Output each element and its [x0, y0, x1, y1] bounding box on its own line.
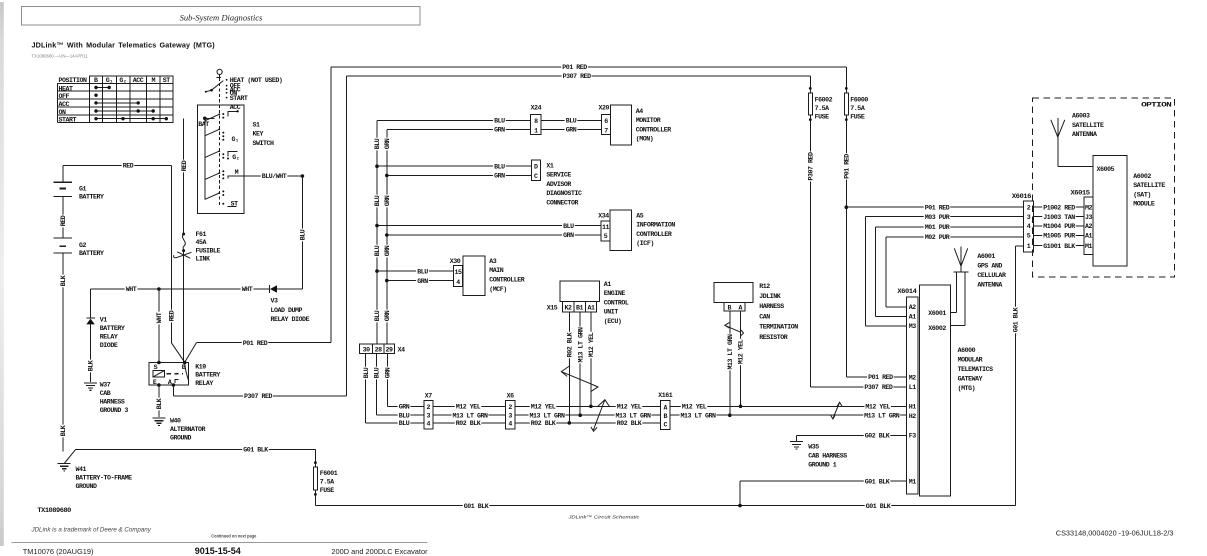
- fuse F6001 7.5A: [313, 449, 337, 505]
- wire G01 BLK bottom bus: [315, 502, 1015, 509]
- svg-text:G₂: G₂: [232, 154, 239, 161]
- svg-text:M12 YEL: M12 YEL: [617, 404, 642, 411]
- svg-text:GATEWAY: GATEWAY: [958, 376, 983, 383]
- svg-text:B: B: [94, 77, 98, 84]
- svg-text:P307 RED: P307 RED: [563, 73, 592, 80]
- connector X24: [531, 105, 542, 135]
- wire RED battery to relay B: [168, 165, 185, 362]
- svg-text:5: 5: [604, 233, 608, 240]
- svg-text:M03 PUR: M03 PUR: [925, 214, 950, 221]
- svg-text:M: M: [151, 77, 155, 84]
- wire G02 BLK to MTG F3: [797, 432, 907, 441]
- wire J1003 TAN: [1034, 213, 1085, 220]
- ground W40 alternator ground: [152, 417, 205, 441]
- svg-text:2: 2: [508, 404, 512, 411]
- svg-text:V1: V1: [100, 317, 108, 324]
- svg-text:M13 LT GRN: M13 LT GRN: [864, 412, 900, 419]
- wire P01 RED to MTG M2: [846, 374, 906, 381]
- svg-text:CS33148,0004020 -19-06JUL18-2/: CS33148,0004020 -19-06JUL18-2/3: [1056, 528, 1174, 537]
- svg-text:J1003 TAN: J1003 TAN: [1043, 214, 1075, 221]
- svg-text:A2: A2: [1085, 223, 1093, 230]
- svg-text:CAB: CAB: [100, 390, 111, 397]
- svg-text:GRN: GRN: [384, 195, 391, 206]
- footer text: [23, 546, 428, 556]
- svg-text:CONTROLLER: CONTROLLER: [636, 126, 672, 133]
- svg-text:CONTROL: CONTROL: [604, 299, 629, 306]
- diode V3 load dump relay diode: [270, 285, 310, 323]
- svg-text:ST: ST: [231, 200, 239, 207]
- svg-text:LINK: LINK: [196, 256, 211, 263]
- svg-text:RELAY: RELAY: [100, 334, 118, 341]
- svg-text:WHT: WHT: [126, 286, 137, 293]
- svg-text:BATTERY: BATTERY: [100, 325, 125, 332]
- svg-text:B1: B1: [576, 305, 584, 312]
- svg-text:OPTION: OPTION: [1141, 102, 1172, 109]
- svg-text:BLU: BLU: [417, 268, 428, 275]
- svg-text:W37: W37: [100, 381, 111, 388]
- svg-text:R12: R12: [759, 283, 770, 290]
- wire M12 YEL X7 to X6: [433, 403, 506, 410]
- svg-text:Continued on next page: Continued on next page: [211, 533, 257, 538]
- svg-text:2: 2: [1027, 204, 1031, 211]
- wire BLU X24 to X20: [541, 117, 601, 124]
- svg-text:M13 LT GRN: M13 LT GRN: [615, 412, 651, 419]
- svg-text:LOAD DUMP: LOAD DUMP: [271, 307, 303, 314]
- svg-text:X161: X161: [658, 392, 673, 399]
- wire BLU CAN vertical: [374, 121, 381, 345]
- svg-text:M: M: [235, 169, 239, 176]
- wire RED F61 to relay: [183, 251, 185, 363]
- svg-text:GPS AND: GPS AND: [977, 262, 1002, 269]
- connector X6015: [1071, 189, 1094, 254]
- svg-text:7: 7: [604, 127, 608, 134]
- svg-text:ENGINE: ENGINE: [604, 290, 626, 297]
- svg-text:P307 RED: P307 RED: [244, 393, 273, 400]
- svg-text:BLU: BLU: [566, 118, 577, 125]
- svg-text:(MCF): (MCF): [489, 286, 507, 293]
- svg-text:GRN: GRN: [494, 173, 505, 180]
- svg-text:M12 YEL: M12 YEL: [682, 404, 707, 411]
- svg-text:4: 4: [1027, 223, 1031, 230]
- wire GRN X4-29 to X7-2: [384, 353, 424, 410]
- svg-text:R02 BLK: R02 BLK: [567, 332, 574, 357]
- svg-text:B: B: [728, 305, 732, 312]
- svg-text:29: 29: [385, 346, 393, 353]
- continued note: [211, 533, 257, 538]
- figure id TX1080680: [32, 54, 89, 59]
- key switch rotary indicator: [205, 69, 224, 93]
- svg-text:A: A: [739, 305, 743, 312]
- svg-text:X7: X7: [425, 393, 433, 400]
- wire R02 BLK ECU K2: [566, 312, 573, 423]
- svg-text:7.5A: 7.5A: [850, 105, 865, 112]
- main controller A3: [463, 256, 525, 296]
- connector X1 service advisor: [531, 160, 582, 206]
- svg-text:M13 LT GRN: M13 LT GRN: [529, 412, 565, 419]
- svg-text:A1: A1: [587, 305, 595, 312]
- connector X6014: [897, 288, 918, 494]
- svg-text:CONTROLLER: CONTROLLER: [636, 231, 672, 238]
- svg-text:M13 LT GRN: M13 LT GRN: [577, 327, 584, 363]
- connector X30: [450, 258, 463, 287]
- svg-text:3: 3: [508, 413, 512, 420]
- wire GRN X24 to X20: [541, 126, 601, 133]
- wire R02 BLK X6 to X161: [515, 420, 661, 427]
- svg-text:X6015: X6015: [1071, 189, 1091, 196]
- svg-text:A1: A1: [1085, 233, 1093, 240]
- svg-text:HEAT: HEAT: [59, 85, 74, 92]
- trademark note: [31, 527, 152, 534]
- svg-text:G01 BLK: G01 BLK: [464, 503, 489, 510]
- svg-text:V3: V3: [271, 298, 279, 305]
- svg-text:BLU: BLU: [563, 223, 574, 230]
- svg-text:WHT: WHT: [242, 286, 253, 293]
- svg-text:ON: ON: [59, 109, 67, 116]
- ground W37 cab harness ground 3: [84, 381, 128, 414]
- wire M13 LT GRN X6 to X161: [515, 412, 661, 419]
- X6016 pin labels: [1027, 204, 1031, 250]
- svg-text:M12 YEL: M12 YEL: [865, 404, 890, 411]
- svg-text:7.5A: 7.5A: [815, 105, 830, 112]
- connector X34: [598, 212, 610, 240]
- svg-text:R02 BLK: R02 BLK: [531, 420, 556, 427]
- svg-text:GRN: GRN: [384, 138, 391, 149]
- svg-text:G1001 BLK: G1001 BLK: [1043, 243, 1075, 250]
- svg-text:(MON): (MON): [636, 136, 654, 143]
- wire M03 PUR MTG M3 to X6016-3: [865, 213, 1023, 326]
- svg-text:B: B: [664, 413, 668, 420]
- svg-text:X6002: X6002: [928, 325, 946, 332]
- wire M12 YEL R12 A: [737, 311, 744, 408]
- svg-text:K19: K19: [195, 363, 206, 370]
- svg-text:GRN: GRN: [385, 367, 392, 378]
- svg-text:MODULE: MODULE: [1133, 201, 1155, 208]
- svg-text:F6002: F6002: [815, 97, 833, 104]
- battery G2: [54, 238, 105, 257]
- X6015 pin labels: [1085, 204, 1093, 250]
- svg-text:BLU: BLU: [399, 420, 410, 427]
- svg-text:BLU: BLU: [300, 229, 307, 240]
- svg-text:G01 BLK: G01 BLK: [1013, 307, 1020, 332]
- svg-text:F3: F3: [909, 433, 917, 440]
- svg-text:A1: A1: [909, 314, 917, 321]
- page edge shading: [0, 2, 4, 546]
- engine control unit A1: [560, 281, 629, 325]
- svg-text:TELEMATICS: TELEMATICS: [958, 366, 994, 373]
- svg-text:G₂: G₂: [119, 77, 126, 84]
- modular telematics gateway A6000: [920, 285, 994, 496]
- svg-text:BLU: BLU: [374, 245, 381, 256]
- battery G1: [54, 165, 105, 200]
- ground W41 battery-to-frame: [58, 449, 132, 490]
- monitor controller A4: [611, 105, 672, 145]
- fuse F6002 7.5A: [807, 76, 833, 387]
- svg-text:X15: X15: [547, 305, 558, 312]
- wire BLU to X24: [377, 117, 531, 124]
- svg-text:SWITCH: SWITCH: [253, 140, 275, 147]
- svg-text:BLU: BLU: [363, 367, 370, 378]
- svg-text:BLU: BLU: [374, 367, 381, 378]
- svg-text:M13 LT GRN: M13 LT GRN: [680, 412, 716, 419]
- svg-text:GRN: GRN: [384, 310, 391, 321]
- svg-text:X4: X4: [398, 347, 406, 354]
- key position table grid: [57, 76, 172, 122]
- header rule box: [22, 7, 421, 25]
- key position list labels: [230, 77, 283, 102]
- svg-text:M12 YEL: M12 YEL: [588, 332, 595, 357]
- contact G1: [222, 132, 239, 143]
- svg-text:X20: X20: [599, 105, 610, 112]
- svg-text:BAT: BAT: [198, 121, 209, 128]
- svg-text:6: 6: [604, 118, 608, 125]
- svg-text:Sub-System Diagnostics: Sub-System Diagnostics: [180, 12, 263, 22]
- twisted pair crossing at ECU drop: [561, 366, 598, 392]
- wire M02 PUR MTG A2 to X6016-5: [886, 234, 1024, 307]
- svg-text:F6001: F6001: [320, 470, 338, 477]
- svg-text:A6000: A6000: [958, 347, 976, 354]
- wire G01 BLK riser to X6016: [1012, 246, 1023, 505]
- svg-text:X6014: X6014: [897, 288, 917, 295]
- contact ACC: [222, 104, 241, 119]
- svg-text:FUSE: FUSE: [815, 113, 830, 120]
- wire BLU to X34: [377, 222, 601, 229]
- svg-text:P01 RED: P01 RED: [868, 374, 893, 381]
- table contact dots: [94, 86, 168, 121]
- svg-text:BLU: BLU: [374, 195, 381, 206]
- svg-text:W41: W41: [76, 466, 87, 473]
- svg-text:FUSIBLE: FUSIBLE: [196, 247, 221, 254]
- contact G2: [222, 151, 239, 161]
- svg-text:X34: X34: [598, 212, 609, 219]
- wire RED key BAT feed: [180, 118, 187, 232]
- svg-text:G₁: G₁: [106, 77, 114, 84]
- svg-text:R02 BLK: R02 BLK: [617, 420, 642, 427]
- label S1 KEY SWITCH: [253, 121, 275, 147]
- twisted pair crossing at X161: [591, 400, 610, 432]
- header title Sub-System Diagnostics: [180, 12, 263, 22]
- antenna A6001 GPS and cellular: [950, 246, 1006, 325]
- svg-text:G01 BLK: G01 BLK: [865, 478, 890, 485]
- svg-text:P01 RED: P01 RED: [562, 64, 587, 71]
- wire BLU to X30: [377, 268, 454, 275]
- svg-text:CAB HARNESS: CAB HARNESS: [808, 453, 847, 460]
- svg-text:A6003: A6003: [1072, 113, 1090, 120]
- svg-text:SATELLITE: SATELLITE: [1133, 182, 1165, 189]
- wire G01 BLK to MTG M1: [740, 478, 907, 506]
- key switch S1 body: [198, 105, 244, 213]
- svg-text:A6001: A6001: [977, 253, 995, 260]
- svg-text:A3: A3: [489, 258, 497, 265]
- svg-text:TM10076 (20AUG19): TM10076 (20AUG19): [23, 547, 94, 556]
- information controller A5: [610, 210, 675, 251]
- svg-text:ACC: ACC: [230, 104, 241, 111]
- svg-text:SERVICE: SERVICE: [546, 172, 571, 179]
- svg-text:11: 11: [602, 224, 610, 231]
- table row labels: [59, 85, 77, 123]
- connector X7: [424, 393, 433, 430]
- key position list dots: [226, 79, 228, 99]
- ground W35 cab harness ground 1: [790, 442, 847, 469]
- antenna A6003 satellite: [1051, 113, 1104, 167]
- wire M1005 PUR: [1034, 232, 1085, 239]
- svg-text:30: 30: [363, 346, 371, 353]
- svg-text:15: 15: [454, 269, 462, 276]
- connector X6016: [1012, 193, 1034, 252]
- svg-text:BLU: BLU: [374, 138, 381, 149]
- reference number: [1056, 528, 1174, 537]
- fuse F6000 7.5A: [843, 67, 868, 377]
- svg-text:INFORMATION: INFORMATION: [636, 222, 675, 229]
- svg-text:(ICF): (ICF): [636, 240, 654, 247]
- svg-text:M12 YEL: M12 YEL: [738, 339, 745, 364]
- svg-text:HARNESS: HARNESS: [759, 303, 784, 310]
- svg-text:M13 LT GRN: M13 LT GRN: [452, 412, 488, 419]
- svg-text:CELLULAR: CELLULAR: [977, 272, 1006, 279]
- svg-text:45A: 45A: [196, 239, 207, 246]
- svg-text:BLU: BLU: [494, 118, 505, 125]
- svg-text:RED: RED: [123, 163, 134, 170]
- svg-text:D: D: [534, 164, 538, 171]
- connector X161: [658, 392, 673, 430]
- svg-text:M1004 PUR: M1004 PUR: [1043, 223, 1075, 230]
- wire G01 BLK left: [76, 446, 316, 453]
- svg-text:FUSE: FUSE: [850, 113, 865, 120]
- svg-text:M2: M2: [909, 374, 917, 381]
- svg-text:JDLink™ Circuit Schematic: JDLink™ Circuit Schematic: [567, 514, 640, 519]
- svg-text:M12 YEL: M12 YEL: [531, 404, 556, 411]
- resistor R12 CAN termination: [714, 282, 798, 340]
- wire BLU to X1: [377, 163, 531, 170]
- svg-text:MONITOR: MONITOR: [636, 117, 661, 124]
- svg-text:GRN: GRN: [399, 404, 410, 411]
- connector X4: [360, 344, 405, 353]
- wire GRN to X1: [387, 172, 532, 179]
- svg-text:28: 28: [375, 346, 383, 353]
- svg-text:X1: X1: [546, 162, 554, 169]
- X6014 pin labels: [909, 304, 917, 485]
- svg-text:WHT: WHT: [156, 312, 163, 323]
- svg-text:4: 4: [427, 421, 431, 428]
- svg-text:3: 3: [427, 413, 431, 420]
- wire M13 LT GRN ECU B1: [577, 312, 584, 415]
- svg-text:1: 1: [534, 127, 538, 134]
- svg-text:(ECU): (ECU): [604, 318, 622, 325]
- svg-text:P01 RED: P01 RED: [243, 340, 268, 347]
- fusible link F61: [174, 231, 221, 263]
- svg-text:G02 BLK: G02 BLK: [865, 433, 890, 440]
- wire M01 PUR MTG A1 to X6016-4: [875, 224, 1023, 317]
- svg-text:SATELLITE: SATELLITE: [1072, 122, 1104, 129]
- svg-text:BLU: BLU: [494, 163, 505, 170]
- svg-text:5: 5: [1027, 233, 1031, 240]
- wire BLK relay to W40: [156, 385, 163, 417]
- svg-text:RESISTOR: RESISTOR: [759, 334, 788, 341]
- svg-text:TERMINATION: TERMINATION: [759, 324, 798, 331]
- wire P01 RED to X6016-2: [845, 204, 1024, 211]
- wire BLU X4-30 to X7-4: [362, 353, 423, 427]
- key switch blades: [205, 113, 220, 199]
- svg-text:2: 2: [427, 404, 431, 411]
- relay K19 battery relay: [149, 361, 220, 387]
- wire M13 LT GRN R12 B: [727, 311, 734, 417]
- svg-text:P1002 RED: P1002 RED: [1043, 204, 1075, 211]
- svg-text:BLU/WHT: BLU/WHT: [262, 173, 287, 180]
- svg-text:M1005 PUR: M1005 PUR: [1043, 233, 1075, 240]
- svg-text:GROUND 1: GROUND 1: [808, 461, 837, 468]
- satellite module A6002: [1093, 155, 1165, 266]
- svg-text:ACC: ACC: [59, 101, 70, 108]
- svg-text:CONNECTOR: CONNECTOR: [546, 200, 578, 207]
- svg-text:7.5A: 7.5A: [320, 479, 335, 486]
- twisted pair crossing at MTG: [831, 402, 842, 419]
- svg-text:A1: A1: [604, 281, 612, 288]
- svg-text:GRN: GRN: [566, 127, 577, 134]
- svg-text:4: 4: [508, 421, 512, 428]
- wire GRN CAN vertical: [384, 130, 391, 345]
- svg-text:(SAT): (SAT): [1133, 191, 1151, 198]
- svg-text:M1: M1: [909, 478, 917, 485]
- svg-text:CAN: CAN: [759, 313, 770, 320]
- key switch dashed shaft: [219, 78, 221, 206]
- svg-text:P307 RED: P307 RED: [808, 152, 815, 181]
- svg-text:H1: H1: [909, 404, 917, 411]
- svg-text:BLK: BLK: [156, 398, 163, 409]
- svg-text:GRN: GRN: [563, 232, 574, 239]
- svg-text:E: E: [153, 379, 157, 386]
- wire R02 BLK X7 to X6: [433, 420, 506, 427]
- svg-text:M2: M2: [1085, 204, 1093, 211]
- svg-text:JDLINK: JDLINK: [759, 293, 781, 300]
- wire P01 RED: [185, 64, 847, 363]
- svg-text:HARNESS: HARNESS: [100, 398, 125, 405]
- svg-text:ALTERNATOR: ALTERNATOR: [170, 426, 206, 433]
- svg-text:BATTERY: BATTERY: [195, 372, 220, 379]
- svg-text:POSITION: POSITION: [59, 77, 88, 84]
- svg-text:KEY: KEY: [253, 131, 264, 138]
- svg-text:RELAY DIODE: RELAY DIODE: [271, 316, 310, 323]
- svg-text:G₁: G₁: [232, 136, 240, 143]
- wire M12 YEL X6 to X161: [515, 403, 661, 410]
- svg-text:G2: G2: [79, 242, 87, 249]
- wire BLK battery negative: [60, 253, 67, 451]
- svg-text:DIODE: DIODE: [100, 342, 118, 349]
- svg-text:X6001: X6001: [928, 310, 946, 317]
- svg-text:H2: H2: [909, 413, 917, 420]
- svg-text:ANTENNA: ANTENNA: [1072, 131, 1097, 138]
- svg-text:ADVISOR: ADVISOR: [546, 181, 571, 188]
- svg-text:OFF: OFF: [59, 93, 70, 100]
- svg-text:TX1080680 —UN—14APR11: TX1080680 —UN—14APR11: [32, 54, 89, 59]
- svg-text:GRN: GRN: [384, 245, 391, 256]
- svg-text:RED: RED: [60, 215, 67, 226]
- wire BLU X4-28 to X7-3: [373, 353, 424, 419]
- wire WHT: [91, 286, 270, 293]
- diode V1 battery relay diode: [86, 289, 125, 382]
- connector X6: [506, 393, 515, 430]
- wire G1001 BLK: [1034, 243, 1085, 250]
- svg-text:BLU: BLU: [399, 412, 410, 419]
- svg-text:P307 RED: P307 RED: [864, 384, 893, 391]
- svg-text:F61: F61: [196, 231, 207, 238]
- wire P307 RED to MTG L1: [810, 384, 906, 391]
- svg-text:BLU: BLU: [374, 310, 381, 321]
- svg-text:BLK: BLK: [60, 275, 67, 286]
- svg-text:GROUND 3: GROUND 3: [100, 407, 129, 414]
- svg-text:MODULAR: MODULAR: [958, 357, 983, 364]
- key switch common bus: [204, 118, 206, 199]
- svg-text:X24: X24: [531, 105, 542, 112]
- wire M12 YEL ECU A1: [588, 312, 595, 406]
